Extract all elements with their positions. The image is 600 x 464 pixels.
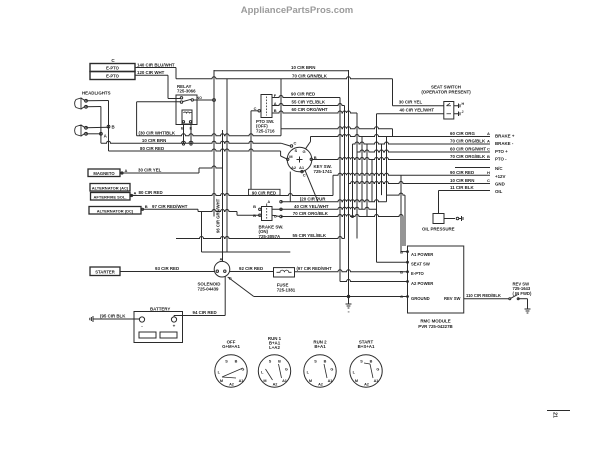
wire nc [455, 167, 490, 169]
svg-text:BRAKE +: BRAKE + [495, 134, 515, 139]
wire solenoid diag to ground [228, 277, 254, 297]
key pin C bottom [301, 170, 303, 172]
svg-text:B: B [112, 125, 115, 130]
svg-text:A: A [125, 168, 128, 173]
svg-text:A1: A1 [239, 379, 244, 383]
svg-text:725-04439: 725-04439 [198, 286, 220, 291]
ground junction dot [347, 295, 349, 297]
wire 140 blu vert [175, 68, 177, 79]
svg-text:A1 POWER: A1 POWER [411, 252, 433, 257]
wire 55 yelblk low [176, 237, 345, 239]
magneto pin A [121, 172, 123, 174]
svg-text:C: C [303, 173, 306, 178]
svg-text:E: E [190, 126, 193, 131]
svg-text:B: B [370, 360, 373, 364]
key G elbow wire [306, 142, 311, 149]
wire ground [254, 296, 408, 298]
svg-text:S: S [269, 360, 272, 364]
wire alt stub [130, 195, 133, 197]
svg-text:60 CIR ORG/WHT: 60 CIR ORG/WHT [450, 147, 486, 152]
page number 21 [547, 410, 570, 412]
wire bus 381 [381, 144, 383, 195]
oil pressure switch box [433, 214, 444, 224]
svg-text:A2: A2 [318, 382, 323, 386]
wire oil stub [444, 218, 455, 220]
wire alt dc stub [141, 208, 144, 210]
wire magneto stub [120, 172, 124, 174]
wire a1 vert [400, 175, 402, 251]
wire 60 org [311, 135, 491, 137]
svg-text:B: B [145, 204, 148, 209]
wire bus 201 [201, 212, 203, 253]
svg-text:PTO +: PTO + [495, 149, 508, 154]
svg-text:80 CIR RED: 80 CIR RED [140, 146, 164, 151]
svg-text:A: A [274, 101, 277, 106]
wire 70 orgblk low [281, 215, 403, 217]
wire wht/blk left vert [136, 102, 138, 136]
node relay out [213, 99, 216, 102]
svg-text:B: B [278, 360, 281, 364]
wire bus 340 [339, 98, 341, 282]
svg-text:A2: A2 [273, 382, 278, 386]
svg-text:A1: A1 [282, 379, 287, 383]
wire pur vert2 [404, 195, 406, 246]
svg-text:+12V: +12V [495, 174, 505, 179]
svg-text:21: 21 [552, 412, 558, 418]
svg-text:C: C [254, 106, 257, 111]
relay K1 box [176, 95, 197, 125]
svg-text:J: J [462, 110, 464, 114]
svg-text:D: D [274, 214, 277, 219]
svg-text:E-PTO: E-PTO [106, 73, 119, 78]
brake pin B1 [259, 208, 261, 210]
wire oil vert [438, 191, 440, 214]
svg-text:(20 CIR PUR: (20 CIR PUR [300, 196, 326, 201]
svg-text:725-1741: 725-1741 [314, 169, 333, 174]
svg-text:STARTER: STARTER [95, 270, 114, 275]
key switch circle [287, 147, 312, 172]
PTO C node [258, 110, 260, 112]
wire whtblk vert2 [392, 129, 394, 137]
svg-text:S: S [360, 360, 363, 364]
wire 90 red r [333, 173, 490, 175]
ground rev switch [525, 308, 531, 310]
svg-text:N/C: N/C [495, 166, 503, 171]
svg-text:BRAKE -: BRAKE - [495, 141, 514, 146]
wire lamp1 bottom [85, 106, 101, 108]
key position OFF [215, 355, 247, 387]
svg-text:A1: A1 [328, 379, 333, 383]
svg-text:A: A [134, 190, 137, 195]
wire whtblk up [281, 127, 393, 129]
svg-text:70 CIR ORG/BLK: 70 CIR ORG/BLK [450, 139, 486, 144]
svg-text:≡: ≡ [347, 310, 349, 314]
wire a1 power [401, 251, 408, 253]
svg-text:C: C [487, 178, 490, 183]
wire grnwht vert [222, 130, 224, 261]
svg-text:40 CIR YEL/WHT: 40 CIR YEL/WHT [400, 108, 435, 113]
svg-text:E-PTO: E-PTO [411, 271, 424, 276]
svg-text:70 CIR ORG/BLK: 70 CIR ORG/BLK [450, 154, 486, 159]
svg-text:A2: A2 [229, 382, 234, 386]
brake dashes [266, 208, 268, 219]
svg-text:30 CIR YEL: 30 CIR YEL [138, 168, 162, 173]
svg-text:70 CIR GRN/BLK: 70 CIR GRN/BLK [292, 73, 328, 78]
node 40 yelwht [280, 208, 282, 210]
key pin M [287, 158, 289, 160]
wire battery pos up [173, 316, 175, 318]
wire 97 redwht a [143, 208, 198, 210]
svg-text:B+S+A1: B+S+A1 [358, 344, 375, 349]
wire seat sw pin [377, 261, 408, 263]
wire 94 red [174, 315, 225, 317]
key position RUN 2 [304, 355, 336, 387]
wire lamp2 top [85, 126, 108, 129]
svg-text:PTO -: PTO - [495, 157, 507, 162]
wire 90red up vert [332, 175, 334, 195]
wire bus 376 seat [376, 114, 378, 262]
relay pin junction 1 [182, 143, 184, 145]
battery terminal neg [139, 317, 144, 322]
relay coil pin 1 [182, 121, 184, 123]
svg-text:10 CIR BRN: 10 CIR BRN [142, 138, 166, 143]
svg-text:94 CIR RED: 94 CIR RED [193, 310, 217, 315]
svg-text:S: S [295, 148, 298, 153]
wire grnblk vert [392, 79, 394, 106]
svg-text:C: C [400, 294, 403, 299]
svg-text:C: C [487, 147, 490, 152]
wire pto C vert [250, 111, 252, 189]
svg-text:G: G [330, 367, 333, 371]
key position START [350, 355, 382, 387]
svg-text:55 CIR YEL/BLK: 55 CIR YEL/BLK [292, 100, 326, 105]
wire 90 red long [132, 194, 334, 196]
seat sw pin top [454, 105, 459, 107]
svg-text:G: G [303, 149, 306, 154]
svg-text:MAGNETO: MAGNETO [93, 171, 115, 176]
alternator DC box [89, 207, 141, 215]
E-PTO connector 1 [90, 64, 135, 72]
wire bus 214 [213, 70, 215, 217]
svg-text:L+A2: L+A2 [269, 345, 280, 350]
relay coil pin 2 [189, 121, 191, 123]
svg-text:OIL: OIL [495, 189, 503, 194]
svg-text:110 CIR RED/BLK: 110 CIR RED/BLK [466, 293, 501, 298]
svg-text:M: M [309, 379, 312, 383]
svg-text:PVR 725-04227B: PVR 725-04227B [418, 324, 452, 329]
svg-text:M: M [220, 379, 223, 383]
svg-text:C: C [294, 141, 297, 146]
wire relay pinE vert [190, 125, 192, 145]
svg-text:S: S [225, 360, 228, 364]
svg-text:A1: A1 [299, 165, 305, 170]
battery box [134, 312, 183, 343]
wire 40 yel/wht seat [377, 113, 444, 115]
E-PTO connector 2 [90, 72, 135, 80]
svg-text:A2: A2 [291, 165, 297, 170]
svg-text:A: A [268, 200, 271, 204]
relay terminal right [191, 99, 193, 101]
wire bus 362 [361, 137, 363, 210]
wire 140 blu/wht a [135, 67, 176, 69]
svg-text:B: B [400, 269, 403, 274]
boxed label 90 CIR RED [249, 189, 281, 195]
svg-text:GROUND: GROUND [411, 296, 430, 301]
wire bus 227 [226, 79, 228, 252]
starter box [90, 267, 120, 276]
alt DC pin B [141, 208, 143, 210]
svg-text:120 CIR WHT: 120 CIR WHT [137, 70, 165, 75]
relay coil box [182, 110, 192, 124]
wire 70 grn/blk [227, 77, 393, 79]
svg-text:725-1716: 725-1716 [256, 128, 275, 133]
wire 60 orgwht r [357, 150, 490, 152]
key switch plus [297, 159, 303, 161]
svg-text:ALTERNATOR (DC): ALTERNATOR (DC) [97, 208, 134, 213]
svg-text:B: B [235, 360, 238, 364]
svg-text:70 CIR ORG/BLK: 70 CIR ORG/BLK [293, 211, 329, 216]
svg-text:S: S [314, 360, 317, 364]
wire bus 357 [356, 113, 358, 239]
key pin B [310, 158, 312, 160]
junction 70 orgblk up [352, 216, 354, 218]
wire 95 blk [96, 318, 140, 320]
wire bus 386 pur [386, 137, 388, 202]
svg-text:B: B [274, 108, 277, 113]
wire 80 red into key M [279, 150, 282, 152]
fuse box [274, 268, 295, 277]
svg-text:SEAT SW: SEAT SW [411, 262, 430, 267]
svg-text:(95 CIR BLK: (95 CIR BLK [100, 313, 126, 318]
svg-text:BATTERY: BATTERY [150, 307, 170, 312]
svg-text:725-3066: 725-3066 [177, 89, 196, 94]
svg-text:92 CIR RED: 92 CIR RED [239, 266, 263, 271]
svg-text:HEADLIGHTS: HEADLIGHTS [82, 90, 111, 95]
wire pur up [387, 193, 406, 195]
wire 120 wht b [168, 98, 180, 100]
svg-text:11 CIR BLK: 11 CIR BLK [450, 185, 474, 190]
svg-text:B: B [324, 360, 327, 364]
wire 70 orgblk3 [312, 158, 490, 160]
svg-text:80 CIR RED: 80 CIR RED [139, 190, 163, 195]
seat sw pin bottom [454, 113, 459, 115]
wire hl B vert [108, 101, 110, 152]
wire rev b [518, 298, 528, 300]
ground battery [93, 318, 96, 320]
svg-text:B: B [487, 154, 490, 159]
node 20 pur [280, 201, 282, 203]
node 70 orgblk [280, 215, 282, 217]
svg-text:A1: A1 [374, 379, 379, 383]
wire 55 yel/blk pto [272, 104, 345, 106]
svg-text:725-1381: 725-1381 [277, 287, 296, 292]
relay contact NO [180, 97, 182, 99]
seat switch contacts [447, 105, 452, 107]
wire 10 brn top [214, 70, 349, 72]
svg-text:B: B [181, 126, 184, 131]
wire 97 e-pto [294, 270, 407, 272]
svg-text:AppliancePartsPros.com: AppliancePartsPros.com [241, 5, 353, 16]
wire 10 brn into key C [281, 143, 290, 146]
wire whtblk up vert [280, 79, 282, 136]
rev switch blade [509, 298, 511, 300]
wire 110 redblk [464, 298, 509, 300]
svg-text:( IN FWD): ( IN FWD) [513, 291, 532, 296]
wire brake D diag [272, 215, 280, 216]
node B headlight [107, 125, 110, 128]
wire 93 red [120, 271, 214, 273]
wire org vert2 [402, 217, 404, 247]
wire relay pinB vert [183, 125, 185, 145]
RMC pin dots [407, 251, 409, 253]
svg-text:A: A [487, 139, 490, 144]
wire 11 blk [439, 190, 491, 192]
wire bus 352 brakeD [352, 144, 354, 217]
PTO switch dashes [266, 97, 268, 116]
wire 30 yel magneto [124, 172, 199, 174]
PTO switch box [261, 95, 272, 118]
svg-text:725-3057A: 725-3057A [259, 234, 282, 239]
svg-text:A2: A2 [364, 382, 369, 386]
wire key C low vert [289, 172, 291, 202]
wire bus 344 [344, 106, 346, 239]
wire 20 pur [281, 200, 387, 202]
alt AC pin A [130, 194, 132, 196]
wire bus 367 [366, 144, 368, 217]
svg-text:RMC MODULE: RMC MODULE [420, 319, 450, 324]
svg-text:B: B [314, 155, 317, 160]
battery terminal pos [171, 317, 176, 322]
svg-text:E-PTO: E-PTO [106, 65, 119, 70]
wire solen batt vert [224, 277, 226, 316]
wire bus 237 [236, 212, 238, 216]
wire 140 blu/wht b [176, 77, 227, 79]
wire 90 red pto [272, 96, 340, 98]
ground module [348, 297, 350, 305]
svg-text:A: A [220, 257, 223, 262]
svg-text:140 CIR BLU/WHT: 140 CIR BLU/WHT [137, 62, 175, 67]
wire 10 brn mid [101, 141, 281, 143]
svg-text:97 CIR RED/WHT: 97 CIR RED/WHT [152, 204, 188, 209]
wire a2 power [340, 280, 408, 282]
wire bus 372 [371, 160, 373, 202]
RMC module box [408, 246, 464, 313]
solenoid circle [214, 261, 230, 277]
svg-text:90 CIR RED: 90 CIR RED [450, 170, 474, 175]
relay contact common [180, 101, 182, 103]
svg-text:10 CIR BRN: 10 CIR BRN [450, 178, 474, 183]
wire magneto up [199, 166, 223, 168]
relay blade [183, 99, 191, 101]
svg-text:55 CIR YEL/BLK: 55 CIR YEL/BLK [293, 233, 327, 238]
node A headlight [100, 132, 103, 135]
wire 30 whtblk [137, 134, 281, 136]
svg-text:G+M+A1: G+M+A1 [222, 344, 240, 349]
seat switch box [444, 102, 454, 120]
svg-text:A2 POWER: A2 POWER [411, 281, 433, 286]
battery cell 2 [160, 332, 177, 338]
wire 70 orgblk2 [353, 142, 491, 144]
wire lamp2 bottom [85, 133, 101, 135]
wire magneto elbow [198, 168, 200, 173]
svg-text:90 CIR RED: 90 CIR RED [252, 190, 276, 195]
svg-text:30 CIR YEL: 30 CIR YEL [399, 100, 423, 105]
headlight lamp 2 [75, 125, 81, 136]
svg-text:B: B [400, 249, 403, 254]
svg-text:40 CIR YEL/WHT: 40 CIR YEL/WHT [294, 204, 329, 209]
brake pin A top [266, 204, 268, 207]
svg-text:ALTERNATOR (AC): ALTERNATOR (AC) [92, 185, 129, 190]
wire 92 red [230, 271, 274, 273]
svg-text:GND: GND [495, 182, 505, 187]
wire 120 wht [135, 74, 168, 76]
svg-text:A: A [487, 131, 490, 136]
svg-text:(30 CIR WHT/BLK: (30 CIR WHT/BLK [139, 131, 176, 136]
wire rev gnd vert [527, 299, 529, 309]
svg-text:B: B [253, 213, 256, 218]
solenoid terminal R [224, 270, 226, 272]
wire 60 org/wht pto [272, 111, 357, 113]
oil pressure contact [456, 217, 459, 220]
wire 97 redwht b [198, 210, 237, 212]
wire hl A vert [100, 107, 102, 144]
wire relay nc [137, 101, 181, 103]
svg-text:96 CIR GRN/WHT: 96 CIR GRN/WHT [216, 198, 221, 233]
wire 97 jog [197, 209, 199, 211]
wire 40 yelwht r [272, 207, 377, 209]
brake pin B2 [259, 214, 261, 216]
key L diagonal wire [305, 170, 318, 202]
svg-text:REV SW: REV SW [444, 296, 461, 301]
svg-text:G: G [376, 367, 379, 371]
key pin C top [290, 145, 292, 147]
wire 10 brn r [349, 182, 491, 184]
svg-text:93 CIR RED: 93 CIR RED [155, 266, 179, 271]
wire bus 348 gnd [348, 70, 350, 297]
svg-text:H: H [487, 170, 490, 175]
svg-text:B: B [253, 204, 256, 209]
svg-text:60 CIR ORG: 60 CIR ORG [450, 131, 475, 136]
svg-text:OIL PRESSURE: OIL PRESSURE [422, 226, 455, 231]
svg-text:10 CIR BRN: 10 CIR BRN [291, 65, 315, 70]
svg-text:H: H [462, 102, 465, 106]
wire relay to node [194, 99, 213, 101]
wire 30 yel seat [393, 105, 444, 107]
alternator AC box [90, 184, 130, 192]
svg-text:AFTERFIRE SOL.: AFTERFIRE SOL. [94, 194, 127, 199]
relay pin junction 2 [190, 143, 192, 145]
magneto box [88, 169, 120, 177]
battery cell 1 [139, 332, 156, 338]
solenoid terminal L [216, 270, 218, 272]
svg-text:B+A1: B+A1 [314, 344, 326, 349]
afterfire box [91, 193, 131, 201]
svg-text:M: M [263, 379, 266, 383]
brake switch box [262, 207, 273, 221]
svg-text:90 CIR RED: 90 CIR RED [291, 92, 315, 97]
svg-text:+: + [173, 323, 176, 328]
svg-text:(OPERATOR PRESENT): (OPERATOR PRESENT) [421, 89, 471, 94]
svg-text:60 CIR ORG/WHT: 60 CIR ORG/WHT [292, 107, 328, 112]
wire 80 red [109, 149, 281, 151]
svg-text:M: M [355, 379, 358, 383]
headlight lamp 1 [75, 98, 81, 109]
key position RUN 1 [258, 355, 290, 387]
wire 120 wht vert [167, 75, 169, 98]
wire lamp1 top [85, 100, 108, 102]
wire solenoid top [202, 251, 291, 253]
svg-text:G: G [285, 367, 288, 371]
